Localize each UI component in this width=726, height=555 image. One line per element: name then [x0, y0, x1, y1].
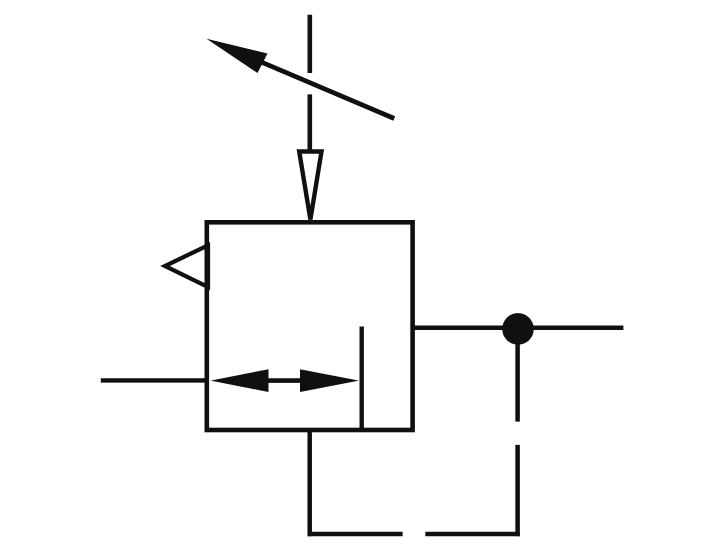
pilot line: dashed vertical segment 1 (below dot): [515, 341, 520, 422]
pilot line: dashed vertical segment 2: [515, 445, 520, 536]
wire: outlet line (right): [413, 326, 624, 331]
inner valve seat vertical line: [360, 327, 364, 431]
pilot line: dashed bottom horizontal segment 1: [308, 532, 403, 537]
double-headed flow arrow left head: [211, 369, 269, 392]
pilot line: bottom port vertical from box: [307, 430, 312, 536]
double-headed flow arrow shaft: [250, 378, 315, 383]
adjustability arrow head: [207, 39, 268, 73]
double-headed flow arrow right head: [300, 369, 359, 392]
spring symbol: hollow down triangle: [299, 152, 321, 220]
wire: spring adjustment stem lower segment: [307, 94, 312, 152]
regulator body box: [207, 222, 413, 430]
junction node dot: [502, 313, 534, 345]
exhaust vent triangle (left): [165, 245, 208, 287]
wire: spring adjustment stem upper segment: [307, 15, 312, 73]
pilot line: dashed bottom horizontal segment 2: [425, 532, 520, 537]
adjustability arrow shaft (diagonal): [240, 53, 394, 119]
wire: inlet line (left): [101, 378, 207, 382]
